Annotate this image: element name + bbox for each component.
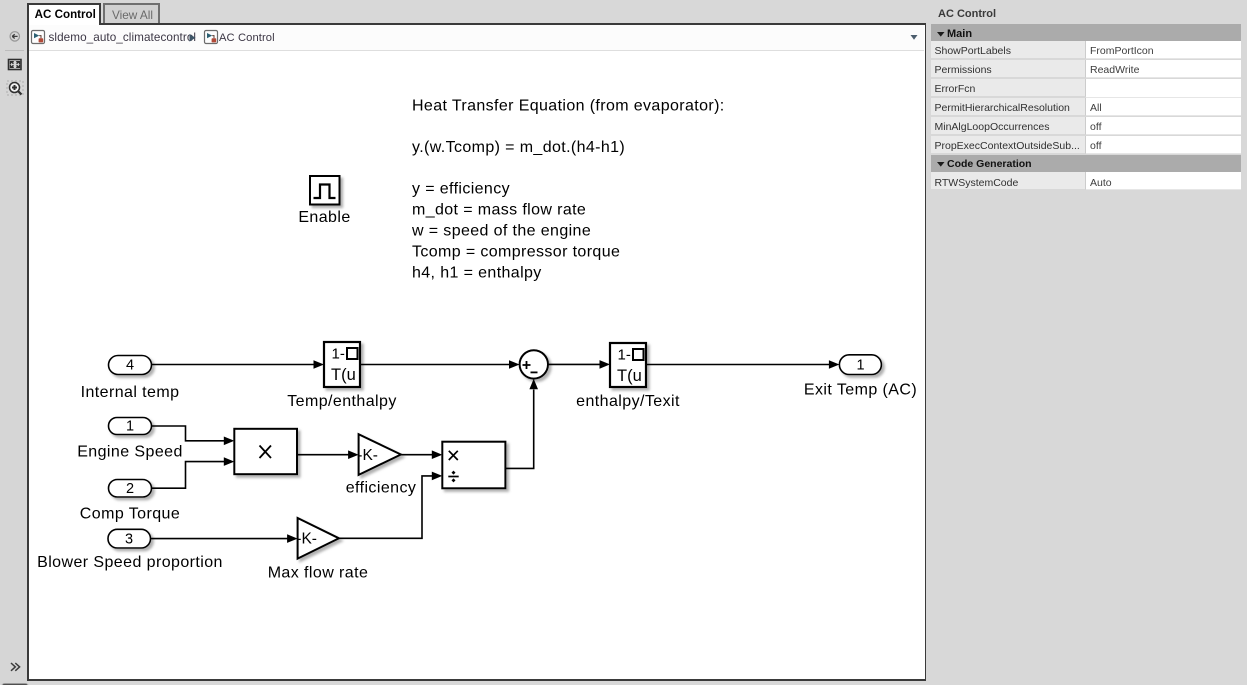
gain efficiency bbox=[346, 434, 417, 496]
svg-text:AC Control: AC Control bbox=[219, 32, 275, 44]
svg-text:w = speed of the engine: w = speed of the engine bbox=[411, 223, 591, 240]
breadcrumb bar bbox=[29, 25, 924, 51]
product block bbox=[234, 429, 297, 474]
svg-text:1-: 1- bbox=[332, 346, 345, 363]
lookup table enthalpy/Texit bbox=[576, 343, 680, 410]
dropdown arrow bbox=[911, 35, 918, 40]
wire inport1 to product bbox=[152, 426, 225, 441]
svg-text:Exit Temp (AC): Exit Temp (AC) bbox=[804, 382, 917, 399]
svg-text:h4, h1 = enthalpy: h4, h1 = enthalpy bbox=[412, 265, 542, 282]
inport 4 bbox=[81, 356, 180, 402]
svg-text:y = efficiency: y = efficiency bbox=[412, 181, 510, 198]
svg-text:Blower Speed proportion: Blower Speed proportion bbox=[37, 554, 223, 571]
svg-text:3: 3 bbox=[125, 532, 133, 548]
sum block bbox=[520, 350, 548, 378]
svg-text:-K-: -K- bbox=[296, 531, 317, 548]
svg-text:Heat Transfer Equation (from e: Heat Transfer Equation (from evaporator)… bbox=[412, 98, 725, 115]
svg-text:Tcomp = compressor torque: Tcomp = compressor torque bbox=[412, 244, 620, 261]
enable block bbox=[298, 176, 350, 226]
fit-to-view icon bbox=[9, 60, 22, 70]
svg-text:1: 1 bbox=[856, 358, 864, 374]
svg-text:Comp Torque: Comp Torque bbox=[80, 506, 180, 523]
svg-text:m_dot = mass flow rate: m_dot = mass flow rate bbox=[412, 202, 586, 219]
svg-text:1-: 1- bbox=[618, 347, 631, 364]
svg-text:y.(w.Tcomp) = m_dot.(h4-h1): y.(w.Tcomp) = m_dot.(h4-h1) bbox=[412, 139, 625, 156]
svg-text:Engine Speed: Engine Speed bbox=[77, 444, 183, 461]
wire product to gain efficiency bbox=[297, 454, 349, 456]
inport 3 bbox=[37, 529, 223, 571]
model icon 1 bbox=[32, 31, 45, 44]
bottom-left clipped widget bbox=[1, 683, 29, 685]
bottom chevron bbox=[11, 663, 20, 671]
wire sum to lut2 bbox=[548, 363, 601, 365]
Code Generation section header bbox=[931, 155, 1241, 172]
left toolbar strip bbox=[0, 0, 27, 685]
diagram canvas bbox=[29, 50, 924, 678]
svg-text:4: 4 bbox=[126, 358, 134, 374]
wire inport3 to gain max flow bbox=[151, 538, 289, 540]
product/divide block bbox=[442, 442, 505, 489]
svg-text:Internal temp: Internal temp bbox=[81, 384, 180, 401]
gain max flow rate bbox=[268, 518, 369, 582]
separator bbox=[5, 50, 24, 52]
svg-text:-K-: -K- bbox=[357, 447, 378, 464]
wire proddiv to sum (up) bbox=[505, 390, 533, 469]
editor frame bbox=[27, 23, 927, 681]
Main section header bbox=[931, 24, 1241, 41]
outport 1 bbox=[804, 355, 917, 399]
inport 2 bbox=[80, 480, 180, 523]
tab: AC Control (active) bbox=[27, 3, 101, 25]
property rows bbox=[931, 41, 1241, 191]
wire lut1 to sum bbox=[360, 364, 510, 366]
annotation: heat transfer equation text bbox=[411, 98, 725, 282]
svg-text:2: 2 bbox=[126, 481, 134, 497]
right properties panel bbox=[926, 0, 1247, 685]
wire gain2 to proddiv divide input bbox=[339, 476, 433, 538]
toolbar icons svg bbox=[0, 0, 27, 685]
svg-text:Max flow rate: Max flow rate bbox=[268, 565, 369, 582]
lookup table Temp/enthalpy bbox=[287, 342, 397, 410]
tab: View All (inactive, drawn first so active overlaps) bbox=[103, 3, 160, 23]
zoom icon bbox=[7, 81, 23, 95]
svg-text:sldemo_auto_climatecontrol: sldemo_auto_climatecontrol bbox=[49, 31, 197, 44]
svg-text:enthalpy/Texit: enthalpy/Texit bbox=[576, 393, 680, 410]
model icon 2 bbox=[205, 31, 218, 44]
svg-text:T(u: T(u bbox=[617, 367, 642, 385]
svg-text:Temp/enthalpy: Temp/enthalpy bbox=[287, 393, 397, 410]
svg-text:efficiency: efficiency bbox=[346, 480, 417, 497]
svg-text:1: 1 bbox=[126, 419, 134, 435]
wire inport4 to lut1 bbox=[152, 364, 315, 366]
inport 1 bbox=[77, 418, 183, 461]
back arrow icon bbox=[10, 32, 19, 41]
wire gain to proddiv bbox=[401, 454, 433, 456]
svg-text:T(u: T(u bbox=[331, 366, 356, 384]
wire lut2 to outport bbox=[646, 364, 830, 366]
breadcrumb separator arrow bbox=[190, 34, 196, 42]
wire inport2 to product bbox=[152, 462, 225, 489]
svg-text:Enable: Enable bbox=[298, 209, 350, 226]
